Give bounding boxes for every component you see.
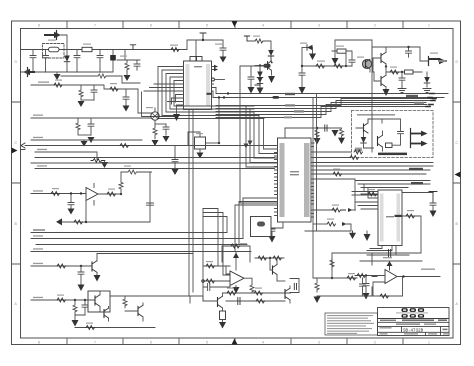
wire long y251 [31, 251, 251, 253]
bus bundle line 7 jogged [216, 107, 425, 118]
wire bottom bus y315 [75, 315, 85, 321]
wire module internal [368, 119, 401, 145]
resistor R13 box [337, 49, 346, 53]
wire branch y60 right [117, 59, 140, 61]
fan vertical relay line [218, 98, 220, 144]
svg-text:8: 8 [38, 340, 40, 344]
wire mid horizontal y216 [203, 217, 227, 233]
ground G3 arrow [78, 100, 85, 107]
crystal Y1 [195, 40, 197, 57]
node Q1 base junction [259, 64, 261, 66]
logo glyph highlights [403, 309, 423, 316]
border center marker left [12, 148, 18, 154]
ground G27 arrow [104, 161, 106, 163]
U3 left staircase feeds [352, 184, 378, 209]
label net U5 [33, 190, 43, 191]
wire long y238 [31, 238, 243, 240]
net tag dark on line 2 [273, 96, 280, 99]
border zone ticks right [453, 102, 461, 264]
U3 right wire y216 [365, 216, 421, 253]
wire top loop right cluster [335, 40, 372, 60]
wire mid horizontal y212 [203, 213, 230, 276]
svg-text:8: 8 [38, 24, 40, 28]
resistor R19 [354, 150, 362, 154]
notes text lines [327, 315, 374, 334]
node y300 junction 1 [74, 299, 76, 301]
node top rail junction [407, 46, 409, 48]
U1 dark pin bar [207, 93, 212, 95]
U2 low pin corner 2 [239, 202, 275, 245]
capacitor C6 [134, 60, 140, 70]
capacitor C7 [91, 85, 97, 100]
capacitor C29 [82, 300, 88, 315]
U1 pin labels inside [186, 64, 211, 106]
long vertical join bottom [189, 296, 203, 301]
capacitor C10 [220, 40, 226, 56]
zone letter labels left margin [15, 60, 18, 306]
wire y266 row left [31, 265, 92, 267]
capacitor C15 [346, 51, 355, 66]
resistor R50 vertical [250, 284, 254, 293]
wire long y157 [35, 157, 275, 159]
node relay junction [218, 142, 220, 144]
resistor R29 [347, 276, 355, 280]
bus bundle line 5 jogged [216, 103, 426, 112]
diode D2 [259, 66, 261, 77]
net label tag 5 [411, 182, 423, 185]
wire y66 resistor row [302, 65, 346, 67]
wire U2 right y152 [314, 151, 351, 153]
wire rail corner up to y40 [187, 40, 223, 50]
capacitor C31 [203, 283, 230, 291]
svg-text:7: 7 [94, 24, 96, 28]
title row: date range [396, 323, 436, 325]
main power rail wire [21, 49, 187, 51]
resistor R47 [231, 244, 239, 248]
resistor R12 [334, 64, 342, 68]
ground G6 arrow [220, 57, 227, 63]
connector J2 bar [27, 68, 29, 77]
opamp U5 feedback [86, 184, 94, 223]
ground G2 arrow [124, 75, 131, 81]
resistor R17 vertical [315, 128, 319, 138]
fan descender to U2 pin 5 [246, 106, 278, 167]
ground return wire bottom [34, 71, 113, 73]
diode D6 small [348, 208, 353, 212]
revision cell text [443, 329, 448, 331]
transistor Q3 [380, 54, 382, 63]
resistor R33 [51, 192, 60, 196]
U1 right pin wire y79 [215, 79, 225, 81]
capacitor C14 [299, 66, 305, 87]
node y266 junction [80, 265, 82, 267]
wire y278 row [313, 277, 357, 279]
wire U2 right y210 [314, 209, 336, 211]
resistor R24 [368, 192, 376, 196]
label net y300 [33, 297, 43, 298]
wire chain y301 [226, 300, 271, 302]
resistor R9 vertical [153, 127, 157, 139]
capacitor C13 [248, 66, 254, 87]
U1 right pin stubs [212, 67, 217, 92]
border zone ticks bottom [67, 338, 403, 345]
power tap VCC4 [429, 192, 437, 204]
U1 bottom pins long verticals [189, 110, 193, 297]
scattered component ref labels [48, 36, 438, 324]
capacitor C24 [389, 250, 391, 258]
capacitor C2 [43, 50, 49, 73]
fan descender to U2 pin 1 [264, 119, 278, 150]
opamp U6 input wire 2 [203, 280, 230, 282]
bus bundle line 3 jogged [216, 99, 433, 106]
title block frame [378, 308, 450, 336]
wire bottom y327 [75, 327, 155, 329]
label net1 [38, 82, 49, 83]
fan crossing arrow 1 [244, 144, 249, 149]
label tag U3b [383, 257, 392, 258]
resistor R16 box [386, 143, 393, 148]
transistor Q12 feedback loop [290, 279, 299, 293]
ground tap y140 [83, 140, 85, 141]
border center marker top [232, 21, 238, 27]
U3 pin labels inside [380, 194, 400, 242]
crystal box X1 [251, 217, 272, 237]
transistor box B1 [88, 291, 110, 312]
resistor R37 [74, 220, 83, 224]
fuse F1 dashed box [43, 44, 65, 59]
resistor R35 vertical chain [119, 172, 123, 194]
wire join y135 [78, 134, 91, 136]
svg-text:6: 6 [150, 24, 152, 28]
U3 left pin wire R24 [361, 193, 378, 195]
connector arrow M1 lower [411, 143, 421, 145]
resistor R42 [86, 326, 95, 330]
bus bundle line 1 [212, 88, 449, 94]
U3 right top wire [402, 192, 433, 194]
capacitor C27 [68, 194, 74, 209]
sheet inner border frame [21, 29, 454, 339]
resistor R39 [57, 298, 66, 302]
wire join y100 [81, 99, 94, 101]
resistor R20 [350, 156, 358, 160]
transistor Q4 [380, 77, 382, 86]
ground G34 arrow [233, 287, 240, 294]
wire R13 taps [332, 51, 352, 60]
capacitor C18 [398, 127, 404, 139]
wire nest corner A [138, 89, 152, 113]
ground G19 arrow [314, 138, 321, 145]
node U2 top junction 1 [316, 127, 318, 129]
transistor Q13 [272, 266, 274, 274]
opamp U4 supply arrow [389, 265, 391, 270]
svg-text:2: 2 [374, 24, 376, 28]
net tag gray 1 [285, 104, 295, 106]
crystal X1 oval [257, 222, 265, 227]
ground G24 arrow [364, 234, 371, 241]
ground G8 arrow [163, 136, 170, 142]
opamp U4 feedback loop [373, 277, 403, 297]
capacitor C32 [294, 284, 296, 290]
transistor Q9 [103, 310, 105, 318]
resistor R6 vertical [79, 85, 83, 100]
fan descender to U2 pin 3 [254, 112, 278, 158]
ground G20 arrow [332, 130, 339, 137]
supply arrow up U6 [235, 252, 237, 270]
notes box [325, 313, 378, 335]
U1 inverted pin circle [212, 78, 215, 81]
resistor R34 [107, 192, 116, 196]
transistor Q7 [91, 262, 93, 271]
resistor R1 box on rail [82, 47, 92, 51]
ground G5 arrow [88, 135, 95, 143]
wire nest corner B [142, 92, 175, 117]
capacitor C28 [78, 266, 84, 284]
resistor R10 [255, 39, 263, 43]
relay K1 bottom stub [199, 149, 201, 153]
title row: model name [380, 319, 447, 321]
wire U2 right y170 [314, 169, 430, 171]
U1 pin indicator arrows [214, 65, 218, 71]
capacitor C12 [172, 146, 178, 169]
power tap VCC3 [244, 36, 249, 41]
resistor R14 [390, 70, 398, 74]
connector J2 arrowhead [23, 69, 30, 75]
svg-text:5: 5 [206, 340, 208, 344]
opamp U6 [230, 271, 244, 286]
wire y231 row [305, 230, 351, 232]
fan crossing arrow 2 [248, 141, 253, 146]
node zener junction [301, 65, 303, 67]
ground G21 arrow [338, 138, 345, 145]
zone number labels top margin [38, 24, 430, 28]
resistor R21 [333, 172, 341, 176]
U3 ref label [386, 216, 394, 217]
net label tag 4 [409, 168, 423, 171]
U2 low pin corner 3 [235, 205, 275, 252]
wire Q7 collector y253 [97, 253, 193, 255]
opamp U5 output wire [98, 193, 121, 195]
connector arrow left y145 [21, 143, 25, 148]
wire chain y293 [223, 292, 291, 294]
node fan junction 2 [223, 96, 225, 98]
connector J3 arrow [429, 58, 439, 60]
wire R10 to Q1 chain [247, 41, 271, 50]
wire y255 row [367, 254, 409, 256]
ground G10 arrow [172, 169, 179, 175]
label net y152 [37, 149, 47, 150]
ground G33 arrow [219, 322, 226, 329]
logo caption [396, 312, 428, 313]
label net y168 [37, 165, 47, 166]
ground G16 arrow [383, 89, 390, 96]
resistor R15 box [405, 70, 414, 74]
wire module bottom feed [371, 60, 373, 152]
resistor R46 [256, 299, 264, 303]
resistor R48 [206, 264, 214, 268]
bundle right end ticks [426, 94, 436, 107]
node U5 input junction [80, 192, 82, 194]
relay K1 box [195, 137, 206, 149]
U2 low pin corner 1 [243, 198, 275, 239]
resistor R4 [54, 83, 62, 87]
node U4 output junction [402, 275, 404, 277]
U1 left fan nest lower [144, 84, 180, 104]
resistor R23 [327, 222, 335, 226]
wire y118 run [31, 117, 151, 119]
ground G17 flat [398, 89, 406, 93]
U1 collar left ground stem [177, 105, 184, 114]
fan vertical aux line [240, 66, 278, 203]
node U5 output junction [120, 193, 122, 195]
svg-text:3: 3 [318, 24, 320, 28]
wire Q1 base [255, 65, 268, 67]
wire y258 row [255, 257, 284, 259]
wire right mid y180 [355, 180, 430, 182]
net label tag 3 [414, 102, 424, 104]
lamp DS1 [151, 112, 159, 120]
wire box link [110, 296, 190, 303]
opamp U4 [385, 270, 397, 284]
capacitor C17 [406, 47, 412, 57]
transistor Q8 [94, 296, 96, 305]
resistor R49 [206, 279, 214, 283]
U1 ref label [194, 66, 202, 67]
border zone ticks top [67, 21, 403, 29]
bus bundle line 6 jogged [216, 105, 427, 115]
resistor R5 [110, 87, 118, 91]
IC U2 [278, 138, 312, 222]
ground G11 arrow [248, 87, 255, 94]
resistor R31 [120, 144, 129, 148]
diode D5 [361, 137, 367, 143]
svg-text:7: 7 [94, 340, 96, 344]
left border stub wires [21, 72, 28, 150]
wire long y145 [25, 145, 278, 147]
wire y296 row [317, 287, 372, 296]
resistor R43 box vertical [220, 311, 226, 320]
node fan junction 1 [227, 92, 229, 94]
transistor Q10 [137, 307, 139, 316]
main wire y47 top right [375, 46, 420, 48]
wire Q2 emitter down [369, 69, 371, 72]
svg-text:1: 1 [428, 24, 430, 28]
node Q3 emitter junction [385, 65, 387, 67]
connector J1 input arrow top-left [45, 34, 54, 36]
ground G12 arrow [257, 88, 264, 95]
module M1 dashed box [352, 111, 434, 158]
node y258 junction [269, 257, 271, 259]
wire right mid y184 [358, 183, 430, 185]
wire U2 right y162 [314, 162, 433, 164]
ground G13 arrow [268, 76, 275, 83]
node y66 to vq junction [345, 65, 347, 67]
ground G7 arrow [152, 140, 159, 146]
svg-text:4: 4 [262, 24, 264, 28]
connector J1 arrowhead [54, 32, 61, 38]
wire y222 feedback rail [60, 172, 150, 222]
connector J3 bar [428, 57, 430, 66]
zener VR1 [302, 47, 307, 49]
ground G4 arrow [123, 106, 130, 112]
capacitor C16 [399, 72, 405, 88]
U1 left fan nest upper [158, 67, 264, 119]
svg-text:3: 3 [318, 340, 320, 344]
power tap VCC2 [200, 33, 206, 40]
ground G31 arrow [94, 275, 101, 282]
wire long y244 [36, 244, 247, 246]
U3 bottom nest [367, 246, 396, 256]
wire y300 row left [31, 299, 95, 301]
capacitor C5 electrolytic [112, 50, 114, 73]
capacitor C9 [88, 118, 94, 135]
net tag gray 3 [284, 116, 292, 118]
input node circle [202, 280, 205, 283]
power tap VCC1 [130, 45, 135, 50]
svg-text:5: 5 [206, 24, 208, 28]
bus bundle line 2 [212, 91, 445, 98]
U1 left pin stubs [180, 67, 184, 102]
ground G14 arrow [299, 87, 306, 94]
node relay vert junction [218, 96, 220, 98]
node rail-vcc junction [202, 39, 204, 41]
node y72 junction [401, 71, 403, 73]
wire long y168 [35, 168, 275, 170]
node loop junction [331, 277, 333, 279]
module M1 caption [357, 114, 395, 116]
net connector pill P1 [264, 64, 271, 68]
wire long y232 [31, 232, 227, 234]
wire U2 right y157 [314, 157, 351, 159]
label net y238 [33, 235, 43, 236]
relay K1 output wire [206, 142, 220, 144]
long vertical x313 [312, 98, 314, 279]
resistor R11 [316, 64, 324, 68]
ground G32 arrow [72, 320, 79, 327]
resistor R2 vertical [125, 60, 129, 72]
electrolytic cap C21 [260, 219, 267, 224]
ground G30 arrow [78, 285, 85, 292]
wire rail stub down right [124, 50, 126, 61]
opamp U4 input wire [355, 275, 385, 277]
resistor R32 [91, 159, 105, 163]
component pill gray [355, 148, 363, 151]
resistor R41 vertical [123, 296, 127, 308]
zone letter labels right margin [456, 60, 459, 306]
capacitor C33 [147, 203, 154, 205]
diode D1 [66, 50, 68, 73]
ground G26 arrow [314, 297, 321, 304]
U2 top bypass wire [285, 128, 331, 138]
ground G35 arrow [173, 114, 180, 121]
wire y224 row [313, 223, 327, 225]
ground G23 arrow [430, 211, 437, 218]
wire y261 row [360, 260, 422, 262]
capacitor C3 [74, 50, 80, 73]
zener VR1 ground [312, 48, 314, 54]
connector J2 output arrow left [30, 71, 34, 73]
ground G25 arrow [363, 293, 370, 300]
connector down arrow CD1 [352, 231, 354, 233]
opamp U6 input wire 1 [203, 266, 230, 274]
IC U1 [184, 61, 212, 110]
wire right mid y187 [361, 187, 408, 189]
label net y232 [33, 229, 45, 230]
wire U2 right y179 [314, 179, 355, 210]
ground G9 arrow [197, 153, 204, 159]
capacitor C25 [363, 276, 369, 293]
ground G15 arrow [332, 58, 339, 65]
U2 pin labels inside [280, 143, 310, 217]
